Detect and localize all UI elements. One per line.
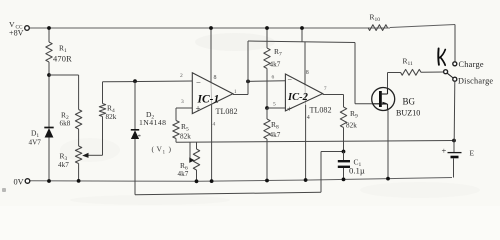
svg-text:−: − [196, 78, 201, 88]
svg-text:TL082: TL082 [216, 107, 238, 116]
svg-text:IC-2: IC-2 [287, 92, 309, 103]
svg-text:4: 4 [307, 115, 310, 121]
svg-text:4k7: 4k7 [58, 161, 69, 169]
svg-text:0.1µ: 0.1µ [349, 166, 365, 176]
svg-text:4k7: 4k7 [270, 131, 281, 139]
svg-text:1: 1 [163, 150, 166, 156]
svg-text:82k: 82k [346, 122, 357, 130]
svg-text:BG: BG [403, 97, 416, 107]
svg-text:0V: 0V [14, 178, 24, 187]
svg-text:4V7: 4V7 [29, 139, 42, 147]
svg-text:6k8: 6k8 [60, 120, 71, 128]
svg-text:+: + [287, 104, 292, 114]
svg-text:Discharge: Discharge [458, 77, 493, 86]
svg-text:4: 4 [213, 122, 216, 128]
svg-text:BUZ10: BUZ10 [396, 109, 420, 118]
svg-text:4k7: 4k7 [270, 61, 281, 69]
svg-text:8: 8 [306, 70, 309, 76]
svg-text:E: E [470, 149, 475, 158]
svg-text:8: 8 [214, 75, 217, 81]
svg-text:3: 3 [181, 99, 184, 105]
svg-text:470R: 470R [53, 55, 72, 64]
svg-text:4k7: 4k7 [178, 170, 189, 178]
svg-text:82k: 82k [180, 133, 191, 141]
svg-text:82k: 82k [106, 113, 117, 121]
svg-text:2: 2 [180, 73, 183, 79]
svg-text:5: 5 [273, 102, 276, 108]
svg-text:−: − [288, 76, 293, 85]
svg-text:Charge: Charge [459, 60, 484, 69]
svg-text:6: 6 [272, 75, 275, 81]
svg-text:1N4148: 1N4148 [139, 118, 166, 127]
svg-text:IC-1: IC-1 [197, 94, 220, 106]
svg-text:TL082: TL082 [310, 106, 332, 115]
svg-text:+8V: +8V [9, 29, 24, 38]
svg-text:+: + [442, 146, 447, 156]
